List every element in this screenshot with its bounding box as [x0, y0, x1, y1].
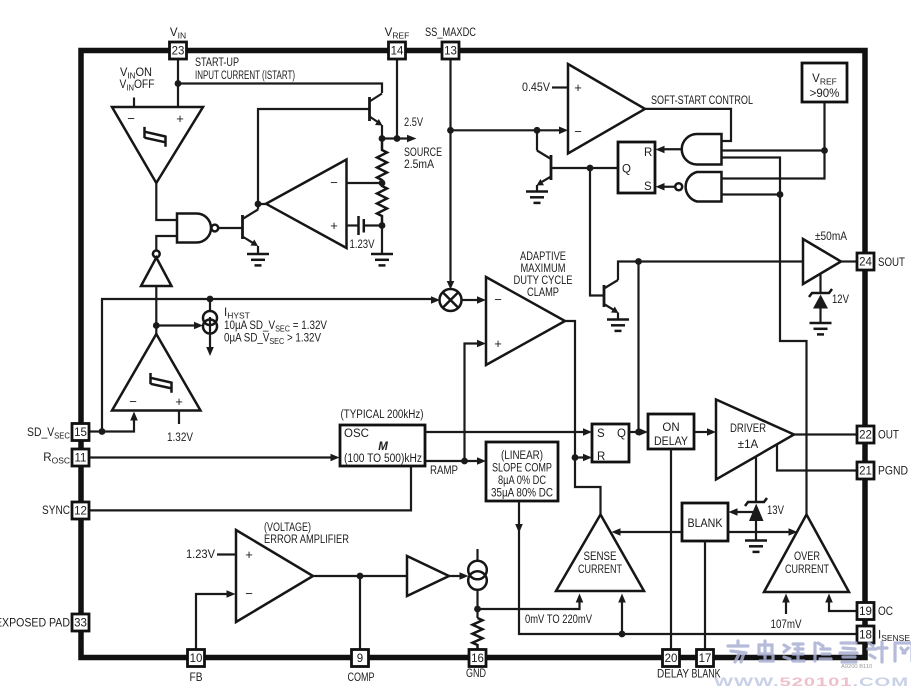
wire: SD_VSEC net horizontal to multiplier	[102, 299, 432, 432]
svg-text:BLANK: BLANK	[688, 518, 723, 530]
svg-text:9: 9	[357, 653, 363, 665]
svg-text:14: 14	[391, 46, 404, 58]
svg-text:START-UP: START-UP	[195, 57, 239, 69]
svg-text:DELAY: DELAY	[657, 669, 689, 681]
wire: U2 - input to resistor divider tap	[347, 182, 383, 184]
comparator U7 (0.45V soft-start comparator)	[568, 64, 645, 154]
wire: buffer output to SOUT pin24	[841, 260, 857, 262]
node A junction dot	[175, 80, 182, 87]
wire: RAMP out of OSC to slope comp	[425, 460, 478, 462]
transistor Q2 (pulls down start-up opamp output)	[243, 204, 259, 254]
svg-text:10: 10	[190, 653, 203, 665]
svg-text:21: 21	[859, 466, 872, 478]
pin 19 OC	[857, 603, 874, 620]
watermark	[714, 641, 911, 688]
ground for Q2	[247, 254, 269, 265]
svg-text:0.45V: 0.45V	[522, 82, 550, 94]
svg-text:−: −	[129, 394, 137, 409]
svg-text:CURRENT: CURRENT	[785, 564, 829, 576]
svg-text:(100 TO 500)kHz: (100 TO 500)kHz	[344, 453, 422, 465]
wire: ISENSE branch up into SENSE CURRENT input	[621, 602, 623, 634]
SQR latch (PWM latch)	[592, 424, 629, 463]
VREF >90% block	[802, 63, 847, 102]
svg-text:CLAMP: CLAMP	[527, 287, 559, 299]
svg-text:+: +	[494, 336, 502, 351]
wire: clamp output down to R input node D	[565, 321, 575, 458]
svg-text:DRIVER: DRIVER	[730, 423, 766, 435]
svg-text:1.32V: 1.32V	[167, 432, 193, 444]
pin 15 SD_VSEC	[72, 424, 89, 441]
pin 23 VIN	[170, 42, 187, 59]
ground for 13V zener	[745, 541, 767, 552]
resistor R1 (upper divider)	[377, 139, 387, 184]
svg-text:S: S	[644, 181, 652, 193]
wire: latch Q output to transistor Q4 base and node F	[551, 167, 618, 169]
wire: A2 to current mirror	[449, 575, 460, 577]
RS latch (soft-start latch)	[618, 142, 655, 193]
pin 10 FB	[188, 650, 205, 667]
wire: node B vertical (opamp U2 out / Q1 base / Q2 collector)	[258, 109, 370, 204]
svg-text:A9200 B110: A9200 B110	[841, 664, 872, 670]
wire: FB pin10 to U8 - input	[196, 594, 227, 649]
svg-text:DELAY: DELAY	[654, 436, 688, 448]
ON DELAY block	[648, 414, 694, 449]
pin 14 VREF	[389, 42, 406, 59]
wire: OSC out to SQR latch S input	[425, 431, 584, 433]
wire: node C to current source IHYST	[156, 324, 194, 326]
svg-text:1.23V: 1.23V	[350, 239, 375, 251]
svg-text:DUTY CYCLE: DUTY CYCLE	[514, 275, 573, 287]
wire: ROSC pin11 to OSC	[89, 456, 331, 458]
svg-text:17: 17	[699, 653, 712, 665]
transistor Q5 (clamp pull-down)	[604, 280, 619, 319]
junction dots on divider	[379, 180, 386, 187]
wire: ramp branch up to clamp + input	[465, 344, 478, 462]
svg-text:OSC: OSC	[344, 428, 369, 440]
svg-text:OC: OC	[878, 606, 893, 618]
wire: DRIVER ground leg to PGND pin21	[777, 444, 857, 470]
svg-text:GND: GND	[466, 668, 486, 680]
ground for Q5	[607, 320, 629, 331]
zener D2 13V	[745, 498, 767, 540]
current mirror CM1 (two circles)	[468, 549, 487, 590]
wire: Q5 collector to SOUT buffer input line	[618, 262, 803, 281]
tiny doc number	[841, 664, 872, 670]
svg-text:−: −	[330, 175, 338, 190]
wire: VREF pin14 down to 2.5V node	[396, 59, 398, 139]
svg-text:SYNC: SYNC	[42, 505, 70, 517]
svg-text:23: 23	[172, 46, 185, 58]
node C junction dot	[153, 322, 160, 329]
wire: divider bottom node to ground	[381, 226, 383, 255]
svg-text:PGND: PGND	[878, 466, 908, 478]
pin 12 SYNC	[72, 502, 89, 519]
svg-text:8µA 0% DC: 8µA 0% DC	[498, 475, 546, 487]
svg-text:INPUT CURRENT (ISTART): INPUT CURRENT (ISTART)	[195, 70, 295, 82]
comparator U1 (VIN ON/OFF hysteresis comparator)	[112, 107, 203, 183]
op-amp U2 (start-up regulator amp, points left)	[266, 160, 347, 249]
AND gate G3 (mirrored, drives R)	[656, 134, 722, 165]
svg-text:SOFT-START CONTROL: SOFT-START CONTROL	[651, 95, 753, 107]
svg-text:R: R	[597, 451, 605, 463]
svg-text:+: +	[574, 80, 582, 95]
pin 9 COMP	[352, 650, 369, 667]
svg-text:ERROR AMPLIFIER: ERROR AMPLIFIER	[264, 534, 349, 546]
pin 18 ISENSE	[857, 626, 874, 643]
svg-text:13V: 13V	[767, 505, 784, 517]
svg-text:EXPOSED PAD: EXPOSED PAD	[0, 618, 70, 630]
wire: slope comp output down to ISENSE net	[519, 501, 622, 634]
svg-text:18: 18	[859, 630, 872, 642]
error amplifier U8	[236, 530, 313, 622]
capacitor 1.23V reference	[359, 216, 383, 235]
wire: DRIVER output to OUT pin22	[794, 433, 857, 435]
svg-text:16: 16	[471, 653, 484, 665]
svg-text:35µA 80% DC: 35µA 80% DC	[491, 488, 553, 500]
comparator U3 (SD_VSEC hysteresis comparator, points up)	[112, 334, 201, 411]
svg-text:S: S	[597, 428, 605, 440]
svg-text:+: +	[175, 394, 183, 409]
node E junction dot (soft-start discharge)	[534, 127, 541, 134]
svg-text:SOUT: SOUT	[878, 257, 905, 269]
wire: U1 output to NAND G1 top input	[156, 183, 177, 220]
wire: VREF>90% down to gate inputs	[722, 102, 825, 179]
pin 20 DELAY	[663, 650, 680, 667]
multiplier M1 (circle with X)	[440, 289, 462, 311]
svg-text:>90%: >90%	[810, 88, 840, 100]
transistor Q1 (start-up source follower)	[370, 94, 383, 139]
wire: SENSE CURRENT output up to node D	[575, 458, 601, 515]
wire: G1 output to transistor Q2 base	[218, 227, 242, 229]
svg-text:33: 33	[74, 618, 87, 630]
svg-text:SLOPE COMP: SLOPE COMP	[492, 463, 552, 475]
svg-text:ADAPTIVE: ADAPTIVE	[520, 251, 566, 263]
wire: OC pin19 to OVER CURRENT input	[829, 602, 857, 611]
comparator U4 (adaptive max duty cycle clamp)	[486, 277, 565, 365]
svg-text:19: 19	[859, 606, 872, 618]
wire: VIN pin23 to comparator U1 + input	[177, 59, 179, 108]
wire: inverter G2 output to NAND G1 bottom input	[156, 236, 177, 251]
svg-text:SOURCE: SOURCE	[404, 147, 442, 159]
zener D1 12V	[809, 289, 832, 323]
svg-text:(TYPICAL 200kHz): (TYPICAL 200kHz)	[341, 409, 424, 421]
svg-text:COMP: COMP	[348, 672, 375, 684]
wire: ISENSE net to pin18	[622, 633, 857, 635]
svg-text:FB: FB	[190, 672, 203, 684]
pin 16 GND	[469, 650, 486, 667]
wire: latch Q to ON DELAY	[629, 431, 640, 433]
wire: mirror to resistor node G	[476, 590, 478, 618]
pin 21 PGND	[857, 462, 874, 479]
resistor R3 to GND pin	[473, 618, 483, 649]
svg-text:(VOLTAGE): (VOLTAGE)	[264, 522, 311, 534]
wire: BLANK to OVER CURRENT left edge	[728, 531, 789, 533]
current source IHYST (two circles with arrow)	[203, 299, 217, 356]
pin 17 BLANK	[697, 650, 714, 667]
wire: U2 + input to 1.23V cap	[347, 224, 359, 226]
node D junction dot	[572, 454, 579, 461]
svg-text:M: M	[378, 441, 388, 453]
ground for divider	[371, 254, 393, 265]
svg-text:20: 20	[665, 653, 678, 665]
BLANK block	[682, 503, 728, 541]
transistor Q3 (soft-start discharge, mirrored)	[537, 151, 552, 192]
svg-text:±50mA: ±50mA	[815, 231, 847, 243]
svg-text:VINOFF: VINOFF	[120, 79, 155, 93]
wire: ON DELAY to DRIVER	[694, 431, 707, 433]
wire: 2.5V source node with arrow	[382, 137, 408, 139]
resistor R2 (lower divider)	[377, 183, 387, 226]
svg-text:−: −	[574, 124, 582, 139]
pin 24 SOUT	[857, 253, 874, 270]
svg-text:MAXIMUM: MAXIMUM	[521, 263, 566, 275]
DRIVER amplifier	[716, 400, 794, 480]
wire: OVER CURRENT output up to gates	[722, 158, 807, 515]
svg-text:(LINEAR): (LINEAR)	[501, 450, 543, 462]
wire: SS_MAXDC branch to 0.45V comparator - input	[451, 129, 560, 131]
svg-text:1.23V: 1.23V	[186, 549, 215, 561]
svg-text:+: +	[245, 547, 253, 562]
svg-text:107mV: 107mV	[771, 619, 802, 631]
wire: SS_MAXDC pin13 down to multiplier	[449, 59, 451, 282]
svg-text:−: −	[245, 586, 253, 601]
svg-text:RAMP: RAMP	[430, 465, 458, 477]
slope compensation block	[486, 442, 558, 501]
wire: node E down to transistor Q3 collector	[536, 130, 538, 150]
wire: buffer to 12V zener	[819, 274, 821, 293]
oscillator block OSC	[340, 425, 425, 466]
wire: over-current net to G4 lower input	[722, 193, 781, 195]
svg-text:22: 22	[859, 430, 872, 442]
inverter G2	[141, 251, 172, 287]
buffer A2	[407, 556, 449, 596]
svg-text:12: 12	[74, 506, 87, 518]
wire: U7 output (soft-start control) to R gate input	[645, 109, 731, 141]
svg-text:OUT: OUT	[878, 430, 899, 442]
NAND gate G1	[177, 214, 218, 243]
wire: node D to SQR latch R input	[575, 456, 584, 458]
wire: 1.32V stub to U3 + input	[178, 411, 180, 425]
pin 22 OUT	[857, 426, 874, 443]
pin 33 EXPOSED PAD	[72, 614, 89, 631]
buffer A1 (SOUT +/-50mA)	[803, 239, 841, 284]
wire: VINON/VINOFF stub to U1 - input	[133, 98, 135, 108]
junction dot IHYST top	[207, 296, 214, 303]
svg-text:Q: Q	[617, 428, 626, 440]
svg-text:2.5V: 2.5V	[404, 117, 423, 129]
wire: 1.23V stub to U8 + input	[217, 553, 236, 555]
svg-text:CURRENT: CURRENT	[578, 564, 622, 576]
wire: multiplier out to clamp - input	[462, 299, 478, 301]
pin 11 ROSC	[72, 449, 89, 466]
wire: G2 output down to node C	[155, 286, 157, 334]
wire: SD_VSEC pin15 to U3 - input	[89, 420, 134, 432]
AND gate G4 with bubble (mirrored, drives S)	[656, 172, 722, 202]
svg-text:Q: Q	[622, 164, 631, 176]
wire: node F down to transistor Q5 base	[590, 168, 604, 296]
wire: COMP node down to pin9	[359, 576, 361, 649]
svg-text:−: −	[494, 292, 502, 307]
wire: DRIVER bottom to 13V zener	[755, 456, 757, 502]
wire: BLANK to SENSE CURRENT right edge	[620, 531, 682, 533]
svg-text:13: 13	[444, 46, 457, 58]
svg-text:+: +	[176, 111, 184, 126]
wire: SYNC pin12 to OSC bottom	[89, 466, 411, 510]
wire: 107mV arrow into OVER CURRENT	[785, 602, 787, 614]
svg-text:0mV TO 220mV: 0mV TO 220mV	[525, 614, 592, 626]
wire: 0mV TO 220mV net to SENSE CURRENT input	[478, 602, 580, 609]
svg-text:+: +	[330, 218, 338, 233]
comparator U5 SENSE CURRENT	[556, 515, 644, 592]
svg-text:−: −	[127, 111, 135, 126]
wire: ISTART net from node A to transistor Q1 collector	[178, 84, 382, 94]
wire: zener node to BLANK input	[737, 511, 756, 513]
svg-text:12V: 12V	[832, 294, 849, 306]
svg-text:24: 24	[859, 257, 872, 269]
ground for Q3	[526, 192, 548, 203]
pin 13 SS_MAXDC	[442, 42, 459, 59]
node B junction dot	[255, 201, 262, 208]
svg-text:±1A: ±1A	[738, 439, 759, 451]
comparator U6 OVER CURRENT	[764, 515, 849, 593]
svg-text:OVER: OVER	[794, 551, 820, 563]
svg-text:R: R	[644, 147, 652, 159]
wire: U8 output to buffer A2	[313, 575, 407, 577]
svg-text:15: 15	[74, 427, 87, 439]
ground for 12V zener	[810, 323, 832, 334]
svg-text:11: 11	[75, 453, 87, 465]
wire: BLANK bottom to BLANK pin17	[704, 541, 706, 649]
wire: ON DELAY bottom to DELAY pin20	[670, 449, 672, 649]
svg-text:ON: ON	[662, 422, 679, 434]
svg-text:SS_MAXDC: SS_MAXDC	[425, 27, 476, 39]
wire: 0.45V stub	[552, 86, 568, 88]
IC boundary box	[81, 51, 865, 658]
svg-text:2.5mA: 2.5mA	[404, 159, 434, 171]
svg-text:SENSE: SENSE	[584, 551, 617, 563]
wire: Q branch up to SOUT drive node	[637, 262, 639, 433]
svg-text:WWW.520101.COM: WWW.520101.COM	[714, 677, 909, 688]
